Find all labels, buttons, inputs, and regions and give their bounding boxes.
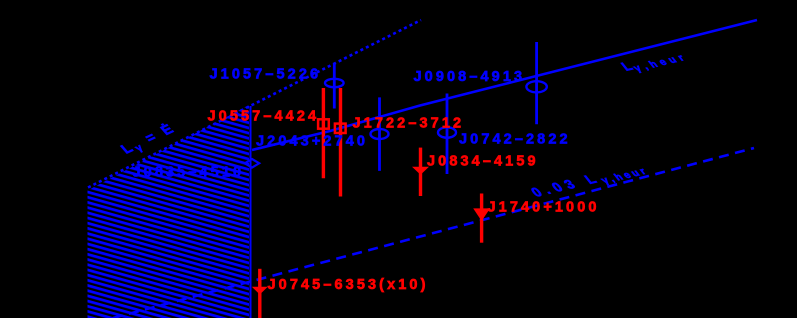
upper limit J0745-6353: bar <box>258 269 261 318</box>
svg-text:J0908–4913: J0908–4913 <box>414 69 526 85</box>
upper limit J0834-4159: arrowhead <box>412 167 429 175</box>
error bar J0742-2822 <box>446 94 449 175</box>
rotated label 0.03 L_gamma,heur (dashed line) <box>528 160 651 202</box>
dashed line 0.03 L_gamma,heur <box>113 148 754 318</box>
marker ellipse J2043+2740 <box>371 129 389 139</box>
marker ellipse J0742-2822 <box>438 127 456 137</box>
svg-text:J0835–4510: J0835–4510 <box>133 165 245 181</box>
dotted line L_gamma = Edot <box>88 20 421 188</box>
error bar J0557-4424 (square 1) <box>322 88 325 178</box>
marker ellipse J1057-5226 <box>325 79 344 87</box>
svg-text:J0742–2822: J0742–2822 <box>459 131 571 147</box>
hatched region (L_gamma > Edot excluded zone) <box>80 95 260 318</box>
svg-text:J1057–5226: J1057–5226 <box>210 66 322 82</box>
svg-text:J0834–4159: J0834–4159 <box>427 154 539 170</box>
svg-text:J1740+1000: J1740+1000 <box>488 200 600 216</box>
rotated label L_gamma = Edot <box>117 120 181 158</box>
solid line L_gamma,heur <box>252 20 757 150</box>
marker square J1722-3712 <box>335 124 346 133</box>
upper limit J1740+1000: bar <box>480 194 483 243</box>
marker square J0557-4424 <box>318 119 329 128</box>
upper limit J1740+1000: arrowhead <box>473 208 490 221</box>
error bar J1057-5226 <box>333 63 336 109</box>
hatch right edge vertical line <box>250 106 252 318</box>
error bar J1722-3712 (square 2) <box>339 88 342 197</box>
upper limit J0745-6353: arrowhead <box>252 287 268 295</box>
upper limit J0834-4159: bar <box>419 148 422 196</box>
svg-text:J1722–3712: J1722–3712 <box>353 116 465 132</box>
svg-text:J0557–4424: J0557–4424 <box>208 109 320 125</box>
svg-text:J2043+2740: J2043+2740 <box>256 134 368 150</box>
svg-text:J0745–6353(x10): J0745–6353(x10) <box>268 277 429 293</box>
marker diamond J0835-4510 <box>245 159 259 168</box>
error bar J2043+2740 <box>378 97 381 170</box>
marker ellipse J0908-4913 <box>526 81 546 92</box>
error bar J0908-4913 <box>535 42 538 124</box>
rotated label L_gamma,heur (solid line) <box>618 47 690 76</box>
